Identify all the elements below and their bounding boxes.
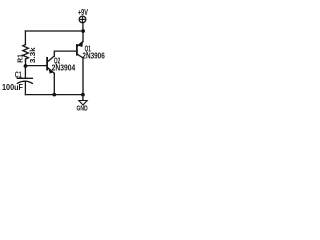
svg-text:C1: C1 (15, 71, 22, 80)
svg-text:3.3k: 3.3k (28, 47, 37, 63)
wire C1 top lead (24, 66, 26, 78)
ground symbol triangle (79, 101, 87, 106)
capacitor C1 top plate (17, 77, 32, 79)
node GND junction dot (81, 93, 85, 97)
ground symbol stem (82, 95, 84, 101)
wire Q1 emitter up to rail (82, 31, 84, 42)
transistor Q1 collector diagonal (78, 55, 83, 58)
node +9V junction dot (81, 29, 85, 33)
svg-text:2N3906: 2N3906 (82, 51, 105, 60)
transistor Q1 emitter diagonal with arrow (PNP) (78, 41, 83, 45)
wire R1 bottom lead (25, 59, 27, 66)
wire bottom rail (25, 94, 83, 96)
transistor Q1 base bar (76, 45, 78, 55)
wire Q2 collector up and right to Q1 base (54, 51, 76, 56)
wire +9V stem (82, 22, 84, 31)
capacitor C1 bottom curved plate (17, 81, 32, 83)
wire Q2 emitter down (53, 73, 55, 94)
svg-text:+9V: +9V (78, 8, 88, 17)
wire left vertical to R1 top (24, 31, 26, 45)
node R1/C1/Q2-base junction dot (24, 64, 28, 68)
transistor Q2 collector diagonal (48, 56, 54, 61)
svg-text:2N3904: 2N3904 (52, 63, 76, 72)
transistor Q2 base bar (46, 58, 48, 70)
wire C1 bottom lead (24, 82, 26, 95)
wire base of Q2 (26, 65, 47, 67)
svg-text:100uF: 100uF (2, 83, 23, 92)
svg-text:R1: R1 (15, 54, 24, 63)
power +9V circle symbol (79, 16, 86, 23)
node Q2 emitter junction dot (52, 93, 56, 97)
svg-text:GND: GND (77, 103, 88, 112)
transistor Q2 emitter diagonal with arrow (48, 68, 54, 73)
resistor R1 (23, 45, 29, 62)
wire top rail (25, 30, 83, 32)
wire Q1 collector down to bottom rail (82, 58, 84, 95)
